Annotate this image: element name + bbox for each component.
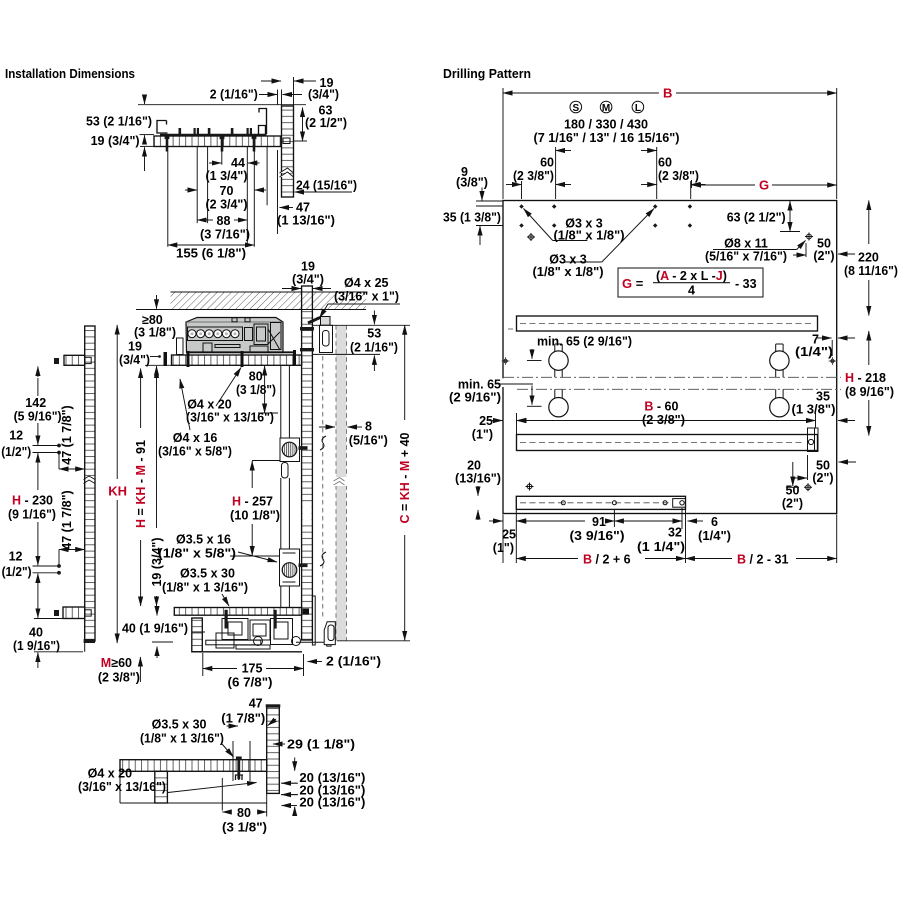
top shelf left — [64, 355, 85, 365]
svg-text:(1/2"): (1/2") — [2, 565, 32, 579]
svg-text:B - 60: B - 60 — [644, 400, 678, 414]
svg-text:(3/4"): (3/4") — [119, 353, 150, 367]
dim 91 (3 9/16") — [516, 520, 585, 522]
svg-text:(1 9/16"): (1 9/16") — [13, 639, 60, 653]
hanger bolt row 2 right — [770, 389, 789, 417]
dim H - 218 right — [868, 331, 870, 365]
svg-text:(9 1/16"): (9 1/16") — [8, 508, 56, 522]
dim C = KH - M + 40 — [404, 325, 406, 420]
dim 70 (2 3/4") — [185, 189, 197, 191]
Ø8 hole left — [527, 233, 535, 241]
extension lines for 180 dim — [556, 147, 657, 199]
svg-text:Ø4 x 16: Ø4 x 16 — [173, 431, 218, 445]
svg-text:(1"): (1") — [472, 428, 493, 442]
svg-text:155 (6 1/8"): 155 (6 1/8") — [176, 247, 246, 261]
bottom bracket phantom — [324, 622, 335, 646]
svg-text:(2"): (2") — [813, 249, 834, 263]
svg-text:(1 3/4"): (1 3/4") — [206, 169, 248, 183]
svg-text:Ø4 x 20: Ø4 x 20 — [88, 767, 133, 781]
svg-text:220: 220 — [858, 251, 879, 265]
svg-text:Ø3.5 x 30: Ø3.5 x 30 — [180, 567, 235, 581]
dowel holes row 1 — [519, 204, 692, 228]
bottom runner assembly — [192, 610, 302, 652]
svg-text:4: 4 — [688, 284, 695, 298]
middle rail (side view) — [517, 435, 818, 451]
dim H = KH - M - 91 — [140, 369, 142, 429]
top hanging rail (side view) — [517, 316, 818, 331]
dimension G — [692, 184, 756, 186]
svg-text:12: 12 — [9, 550, 23, 564]
svg-text:63 (2 1/2"): 63 (2 1/2") — [727, 211, 786, 225]
svg-text:M: M — [602, 103, 610, 114]
svg-text:KH: KH — [108, 484, 127, 499]
svg-text:(2 9/16"): (2 9/16") — [449, 391, 501, 405]
svg-text:H - 218: H - 218 — [845, 371, 886, 385]
svg-text:47: 47 — [249, 697, 263, 711]
dim 175 (6 7/8") — [203, 653, 304, 676]
svg-text:(3/4"): (3/4") — [292, 273, 324, 287]
svg-text:(2 3/8"): (2 3/8") — [642, 413, 685, 427]
dim 80 (3 1/8") — [222, 811, 231, 813]
svg-text:20: 20 — [467, 459, 481, 473]
svg-text:(3 1/8"): (3 1/8") — [236, 383, 276, 397]
svg-text:Drilling Pattern: Drilling Pattern — [443, 67, 531, 81]
hidden door rail dashes — [322, 356, 324, 620]
dim 29 (1 1/8") — [273, 743, 285, 745]
cabinet side panel (plan) — [267, 707, 280, 793]
datum marks on edges — [503, 358, 836, 364]
svg-text:(2 1/16"): (2 1/16") — [350, 341, 398, 355]
dim 32 (1 1/4") — [614, 520, 682, 522]
svg-text:32: 32 — [668, 526, 682, 540]
svg-text:(3/16" x 13/16"): (3/16" x 13/16") — [78, 780, 166, 794]
svg-text:(1 1/4"): (1 1/4") — [637, 540, 685, 554]
svg-text:24 (15/16"): 24 (15/16") — [296, 179, 357, 193]
back bracket behind panel — [320, 317, 333, 353]
svg-text:(1/8" x 5/8"): (1/8" x 5/8") — [158, 547, 236, 561]
svg-text:min. 65 (2 9/16"): min. 65 (2 9/16") — [537, 335, 632, 349]
back panel rung gap — [303, 504, 312, 520]
svg-text:(2 3/8"): (2 3/8") — [658, 169, 699, 183]
runner feet — [203, 343, 212, 352]
wheel strip — [188, 327, 243, 341]
svg-text:2 (1/16"): 2 (1/16") — [326, 655, 381, 669]
bottom reference line — [337, 640, 410, 642]
vertical rail on back panel — [281, 366, 290, 608]
svg-text:175: 175 — [242, 662, 263, 676]
Ø8 pilot hole top right — [805, 233, 813, 241]
dim 220 (8 11/16") right side — [868, 201, 870, 245]
svg-text:(3/4"): (3/4") — [308, 87, 339, 101]
hanger bolt row 1 right — [770, 344, 789, 377]
svg-text:Ø3.5 x 30: Ø3.5 x 30 — [152, 718, 207, 732]
svg-text:88: 88 — [217, 214, 231, 228]
dim 19 (3/4") panel thickness — [261, 80, 281, 82]
dim H - 257 — [251, 461, 253, 488]
dim KH — [116, 325, 118, 479]
front bracket on middle rail — [808, 428, 819, 452]
svg-text:(1 13/16"): (1 13/16") — [277, 214, 335, 228]
bottom line — [120, 760, 267, 803]
wheels — [188, 330, 239, 338]
svg-text:(1/4"): (1/4") — [698, 529, 731, 543]
dowel holes row 2 — [519, 223, 524, 228]
svg-text:40: 40 — [29, 626, 43, 640]
svg-text:19: 19 — [128, 340, 142, 354]
cabinet side panel (plan) — [282, 106, 294, 197]
panel edge extension lines up — [503, 88, 837, 199]
svg-text:(2"): (2") — [782, 497, 803, 511]
svg-text:(8 11/16"): (8 11/16") — [844, 264, 898, 278]
upper rail fitting — [280, 438, 300, 478]
size badges S M L — [570, 101, 582, 113]
top reference line — [138, 104, 306, 106]
svg-text:(3/8"): (3/8") — [456, 176, 488, 190]
dimension 180/330/430 arrows — [556, 150, 571, 152]
dim 2 (1/16") bottom — [308, 661, 323, 663]
svg-text:8: 8 — [365, 420, 372, 434]
svg-text:min. 65: min. 65 — [458, 378, 501, 392]
svg-text:35: 35 — [816, 390, 830, 404]
left margin dim chain — [37, 378, 39, 612]
svg-text:80: 80 — [249, 370, 263, 384]
svg-text:(1/8" x 1 3/16"): (1/8" x 1 3/16") — [162, 581, 248, 595]
svg-text:(1/2"): (1/2") — [1, 445, 31, 459]
lower Ø8 holes — [804, 483, 812, 491]
cabinet panel outline — [503, 201, 837, 514]
svg-text:Ø8 x 11: Ø8 x 11 — [724, 237, 768, 251]
shelf board (plan, chipboard section) — [154, 136, 281, 147]
svg-text:80: 80 — [237, 806, 251, 820]
svg-text:(3 9/16"): (3 9/16") — [570, 529, 625, 543]
runner bottom flange — [187, 351, 296, 353]
svg-text:35 (1 3/8"): 35 (1 3/8") — [443, 211, 501, 225]
svg-text:(5 9/16"): (5 9/16") — [14, 410, 62, 424]
svg-text:C = KH - M + 40: C = KH - M + 40 — [398, 432, 412, 523]
svg-text:60: 60 — [540, 156, 554, 170]
formula box G = (A - 2 x L -J)/4 - 33 — [618, 268, 763, 297]
svg-text:19 (3/4"): 19 (3/4") — [91, 134, 140, 148]
runner inner blocks — [245, 328, 253, 341]
svg-text:(3 1/8"): (3 1/8") — [222, 821, 267, 835]
svg-text:G =: G = — [622, 276, 644, 291]
svg-text:L: L — [635, 103, 641, 114]
svg-text:(10 1/8"): (10 1/8") — [230, 509, 280, 523]
svg-text:47 (1 7/8"): 47 (1 7/8") — [60, 490, 74, 549]
svg-text:(5/16"): (5/16") — [349, 434, 388, 448]
svg-text:60: 60 — [658, 156, 672, 170]
dim B/2-31 — [685, 558, 732, 560]
svg-text:25: 25 — [479, 414, 493, 428]
svg-text:H - 230: H - 230 — [12, 494, 53, 508]
front hook — [177, 338, 184, 355]
dimension B (top width) — [503, 92, 659, 94]
svg-text:B / 2 + 6: B / 2 + 6 — [583, 553, 631, 567]
svg-text:(3 1/8"): (3 1/8") — [134, 326, 176, 340]
svg-text:29 (1 1/8"): 29 (1 1/8") — [287, 738, 355, 752]
svg-text:12: 12 — [9, 429, 23, 443]
top line to door — [312, 324, 410, 326]
svg-text:19 (3/4"): 19 (3/4") — [150, 537, 164, 586]
screw line pair 2 — [33, 566, 61, 573]
top board (chipboard section) — [172, 355, 302, 365]
svg-text:(3/16" x 5/8"): (3/16" x 5/8") — [158, 445, 232, 459]
extension lines below board — [168, 147, 267, 247]
svg-text:40 (1 9/16"): 40 (1 9/16") — [122, 622, 188, 636]
svg-text:(1/8" x 1/8"): (1/8" x 1/8") — [533, 265, 604, 279]
svg-text:B / 2 - 31: B / 2 - 31 — [737, 553, 788, 567]
svg-text:91: 91 — [592, 515, 606, 529]
fixing screws into back panel — [300, 327, 314, 330]
rail end cover on panel — [312, 596, 315, 645]
dim 44 (1 3/4") — [209, 162, 221, 164]
svg-text:(1/8" x 1/8"): (1/8" x 1/8") — [554, 229, 625, 243]
svg-text:M≥60: M≥60 — [101, 656, 132, 670]
right stepped bracket — [259, 109, 267, 135]
dims 20 (13/16") x3 — [281, 783, 298, 794]
svg-text:(7 1/16" / 13" / 16 15/16"): (7 1/16" / 13" / 16 15/16") — [534, 131, 680, 145]
svg-text:(1 7/8"): (1 7/8") — [221, 712, 265, 726]
screw line pair 1 — [33, 446, 61, 453]
svg-text:19: 19 — [301, 260, 315, 274]
svg-text:180 / 330 / 430: 180 / 330 / 430 — [564, 118, 648, 132]
svg-text:(1"): (1") — [493, 541, 514, 555]
KH reference line B (dash-dot) — [517, 388, 841, 390]
svg-text:Installation Dimensions: Installation Dimensions — [5, 67, 135, 81]
hanger bolt row 1 left — [549, 344, 568, 377]
bottom board lines left — [34, 619, 83, 652]
dim 24 (15/16") — [295, 191, 353, 193]
bottom drawer rail (side view) — [516, 496, 685, 509]
lower rail fitting — [280, 549, 300, 586]
svg-text:- 33: - 33 — [735, 277, 757, 291]
screw extension lines — [222, 741, 250, 811]
fixing screw Ø3.5x30 — [237, 758, 240, 780]
dim 19 (3/4") rotated — [156, 369, 158, 529]
svg-text:Ø4 x 25: Ø4 x 25 — [344, 276, 389, 290]
svg-text:(6 7/8"): (6 7/8") — [228, 676, 273, 690]
svg-text:G: G — [759, 178, 769, 193]
svg-text:(2 3/8"): (2 3/8") — [98, 671, 140, 685]
svg-text:(8 9/16"): (8 9/16") — [845, 385, 894, 399]
panel break mark — [280, 168, 294, 177]
svg-text:(2 1/2"): (2 1/2") — [305, 116, 347, 130]
angled ceiling screw — [308, 318, 320, 324]
svg-text:Ø3.5 x 16: Ø3.5 x 16 — [176, 533, 231, 547]
bottom board (chipboard section) — [174, 608, 301, 616]
front piece below — [155, 771, 168, 803]
svg-text:(1/8" x 1 3/16"): (1/8" x 1 3/16") — [140, 732, 224, 746]
svg-text:(2"): (2") — [812, 471, 833, 485]
svg-text:H - 257: H - 257 — [232, 495, 273, 509]
svg-text:44: 44 — [231, 156, 245, 170]
cabinet left side panel — [85, 326, 95, 641]
svg-text:(A - 2 x L -J): (A - 2 x L -J) — [656, 269, 727, 283]
dim 155 (6 1/8") — [168, 244, 255, 246]
back panel (vertical, wood section) — [302, 310, 313, 640]
bottom shelf left — [63, 607, 85, 619]
dim 47 rotated #1 — [58, 453, 60, 470]
svg-text:(1/4"): (1/4") — [795, 345, 833, 359]
svg-text:(1 3/8"): (1 3/8") — [792, 403, 836, 417]
top runner body — [186, 318, 283, 353]
svg-text:20 (13/16"): 20 (13/16") — [299, 796, 365, 810]
extension lines bottom — [503, 508, 837, 563]
svg-text:B: B — [663, 86, 672, 101]
drawer bottom board — [120, 760, 267, 772]
connector plug in panel — [283, 138, 290, 144]
door panel phantom band — [336, 325, 347, 641]
svg-text:47: 47 — [296, 201, 310, 215]
door band break — [333, 477, 349, 486]
hanger bolt row 2 left — [549, 389, 568, 417]
svg-text:H = KH - M - 91: H = KH - M - 91 — [134, 440, 148, 528]
dim B/2+6 — [516, 558, 578, 560]
dim 88 (3 7/16") — [197, 219, 213, 221]
line under runner to door — [312, 353, 380, 355]
dim 6 (1/4") — [688, 520, 704, 522]
svg-text:(2 3/4"): (2 3/4") — [206, 198, 248, 212]
KH reference line A (dash-dot) — [503, 376, 841, 378]
rail profile top edge — [160, 134, 267, 136]
svg-text:53: 53 — [367, 327, 381, 341]
dim 63 (2 1/2") vertical — [302, 108, 304, 142]
svg-text:53 (2 1/16"): 53 (2 1/16") — [86, 115, 152, 129]
svg-text:(3 7/16"): (3 7/16") — [200, 228, 250, 242]
extension line rail end / 2-dim — [277, 90, 279, 235]
left angle bracket — [157, 121, 168, 134]
board screws — [187, 351, 190, 367]
svg-text:Ø4 x 20: Ø4 x 20 — [187, 398, 232, 412]
break marks mid — [320, 436, 326, 566]
bottom rail end bracket — [673, 499, 686, 508]
svg-text:(5/16" x 7/16"): (5/16" x 7/16") — [705, 250, 787, 264]
svg-text:47 (1 7/8"): 47 (1 7/8") — [60, 405, 74, 464]
rail clips — [179, 128, 253, 135]
svg-text:70: 70 — [220, 184, 234, 198]
dim 47 rotated #2 — [58, 550, 60, 567]
ceiling hatch band — [171, 292, 367, 310]
svg-text:2 (1/16"): 2 (1/16") — [210, 87, 258, 101]
leader funnel for dowel labels — [524, 209, 553, 241]
svg-text:6: 6 — [711, 515, 718, 529]
svg-text:S: S — [572, 103, 579, 114]
svg-text:(2 3/8"): (2 3/8") — [513, 169, 554, 183]
dim 47 (1 13/16") — [280, 207, 294, 209]
fixing screws through board — [165, 137, 257, 152]
svg-text:25: 25 — [502, 528, 516, 542]
drawer front lower section — [192, 618, 203, 652]
svg-text:(13/16"): (13/16") — [455, 472, 501, 486]
svg-text:(3/16" x 1"): (3/16" x 1") — [334, 290, 399, 304]
svg-text:142: 142 — [25, 396, 46, 410]
